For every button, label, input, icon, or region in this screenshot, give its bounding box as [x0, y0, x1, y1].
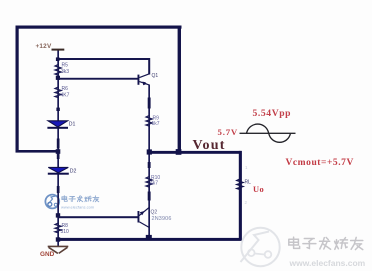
- svg-text:Vcmout=+5.7V: Vcmout=+5.7V: [286, 158, 354, 168]
- svg-text:D2: D2: [70, 169, 77, 175]
- svg-text:510: 510: [61, 229, 70, 235]
- svg-text:Q1: Q1: [152, 73, 159, 79]
- svg-text:www.elecfans.com: www.elecfans.com: [289, 258, 366, 268]
- svg-text:RL: RL: [245, 179, 252, 185]
- svg-text:R5: R5: [62, 63, 69, 69]
- svg-text:4K7: 4K7: [61, 93, 70, 99]
- svg-text:2N3906: 2N3906: [152, 216, 172, 222]
- svg-text:5.54Vpp: 5.54Vpp: [253, 108, 292, 119]
- svg-text:+12V: +12V: [36, 43, 52, 50]
- svg-text:www.elecfans.com: www.elecfans.com: [61, 204, 95, 209]
- svg-text:1k7: 1k7: [152, 121, 160, 127]
- svg-text:4k7: 4k7: [150, 181, 158, 187]
- svg-text:3k3: 3k3: [61, 69, 69, 75]
- svg-text:Vout: Vout: [193, 138, 226, 153]
- svg-text:Uo: Uo: [253, 185, 264, 194]
- svg-text:5.7V: 5.7V: [218, 127, 239, 137]
- svg-text:R6: R6: [62, 86, 69, 92]
- svg-text:Q2: Q2: [151, 210, 158, 216]
- svg-text:D1: D1: [69, 121, 76, 127]
- svg-text:GND: GND: [40, 251, 55, 258]
